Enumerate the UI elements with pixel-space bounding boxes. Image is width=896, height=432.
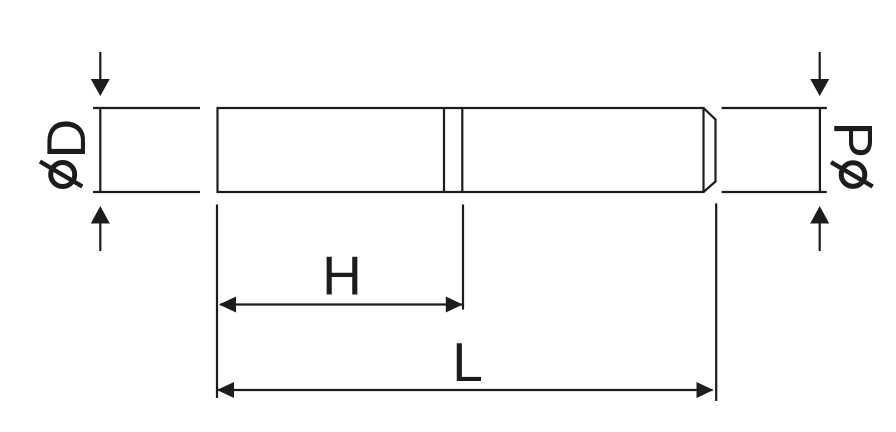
svg-text:H: H (322, 245, 362, 307)
svg-text:L: L (452, 331, 483, 393)
svg-text:D: D (35, 119, 97, 159)
svg-text:P: P (822, 121, 884, 158)
